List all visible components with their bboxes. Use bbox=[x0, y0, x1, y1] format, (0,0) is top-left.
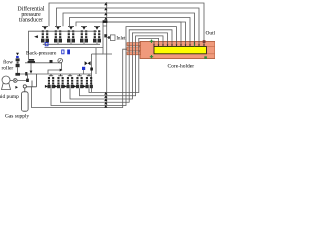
wire arch 1 bbox=[51, 27, 177, 106]
bowtie valve bbox=[85, 61, 91, 65]
transducer L3 bbox=[64, 74, 74, 88]
green fitting top bbox=[150, 40, 153, 44]
wire top tap line 2 bbox=[57, 8, 200, 41]
wire rail to zigzag bbox=[92, 53, 104, 55]
transducer L4 bbox=[73, 74, 83, 88]
core-holder body (salmon sleeve) bbox=[140, 42, 215, 59]
rail C bbox=[25, 62, 62, 64]
svg-text:Outlet: Outlet bbox=[206, 31, 216, 37]
lower DP transducer row bbox=[45, 74, 93, 88]
wire unit-top rail to regulator bbox=[29, 31, 98, 59]
green fitting bottom bbox=[150, 55, 153, 59]
valve blob bbox=[90, 68, 93, 71]
blue marker b3 (filled) bbox=[67, 50, 70, 55]
wire top tap line 1 bbox=[49, 3, 204, 41]
wire mid vertical x91 bbox=[91, 54, 93, 92]
transducer L5 bbox=[83, 74, 93, 88]
wire top tap line 5 bbox=[76, 22, 186, 41]
green fitting bottom right bbox=[204, 56, 207, 59]
wire arch 2 bbox=[61, 30, 173, 102]
wire leg overlays across prongs bbox=[129, 43, 139, 55]
rail A: upper transducer collector bbox=[43, 43, 100, 45]
blue marker b1 (open) bbox=[45, 43, 48, 46]
regulator vent line bbox=[30, 63, 32, 71]
wire valve to rail D bbox=[27, 74, 29, 79]
green fitting mid bbox=[194, 42, 196, 46]
svg-text:Gas supply: Gas supply bbox=[5, 114, 29, 120]
end prong top bbox=[127, 43, 141, 46]
transducer L1 bbox=[45, 74, 55, 88]
rail B bbox=[45, 47, 104, 49]
arrow into U1 bbox=[34, 35, 38, 38]
rail D: bottom feed bbox=[18, 73, 92, 75]
transducer U4 bbox=[80, 26, 88, 44]
transducer U1 bbox=[41, 26, 49, 44]
pressure tap stubs bbox=[154, 41, 204, 45]
wire top tap line 3 bbox=[63, 13, 195, 41]
wire inlet stub bbox=[107, 37, 110, 39]
wire arch 5 bbox=[89, 38, 159, 92]
wire b4 stub bbox=[83, 70, 85, 74]
blue marker b2 (open) bbox=[62, 50, 64, 54]
core sample (yellow) bbox=[154, 46, 207, 53]
fluid pump symbol bbox=[2, 76, 14, 90]
blue marker b4 bbox=[82, 67, 85, 70]
twin pipe crossbar bbox=[103, 25, 107, 27]
back-pressure regulator bbox=[28, 59, 35, 63]
marker near cylinder knob bbox=[15, 86, 18, 89]
wire mid vertical x96 bbox=[95, 48, 97, 74]
transducer U5 bbox=[93, 26, 101, 44]
pressure tap arrowheads bbox=[153, 45, 205, 47]
check valve (circle-x) bbox=[13, 79, 27, 83]
flow arrows on manifold crossings (top) bbox=[104, 3, 107, 20]
wire arch 4 bbox=[80, 36, 164, 96]
manifold junction block bbox=[103, 20, 108, 23]
small valve on rail C bbox=[50, 60, 53, 63]
transducer L2 bbox=[54, 74, 64, 88]
outlet fitting (dark red) bbox=[203, 40, 206, 43]
wire reference line A0 bbox=[105, 22, 182, 41]
pressure gauge bbox=[48, 58, 63, 74]
flow arrows on manifold crossings (bottom) bbox=[104, 92, 107, 108]
upper DP transducer row bbox=[41, 26, 101, 44]
svg-text:Fluid pump: Fluid pump bbox=[0, 94, 19, 100]
svg-text:Core-holder: Core-holder bbox=[168, 63, 195, 69]
wire arch 3 bbox=[70, 33, 168, 99]
junction block bbox=[25, 72, 27, 76]
junction tee bbox=[15, 73, 20, 76]
wire supply feed to core inlet bbox=[32, 49, 128, 107]
transducer U2 bbox=[54, 26, 62, 44]
transducer U3 bbox=[67, 26, 75, 44]
svg-text:transducer: transducer bbox=[19, 18, 43, 24]
wire twin pipe left bbox=[102, 23, 104, 54]
inlet valve tick bbox=[104, 34, 107, 37]
svg-text:flow: flow bbox=[3, 58, 13, 65]
svg-text:roller: roller bbox=[2, 66, 14, 72]
wire inlet zigzag bbox=[103, 53, 112, 55]
inlet fitting bbox=[108, 36, 110, 38]
wire manifold vertical bbox=[106, 2, 108, 106]
arrow on gauge line bbox=[60, 69, 63, 72]
band edge lines bbox=[207, 46, 216, 53]
end prong bottom bbox=[127, 52, 141, 55]
end prong middle bbox=[127, 47, 141, 51]
valve block on supply line bbox=[26, 79, 29, 82]
flow controller bbox=[16, 53, 20, 74]
wire top tap line 4 bbox=[70, 18, 191, 41]
svg-text:Back-pressure: Back-pressure bbox=[26, 51, 57, 57]
gas cylinder bbox=[22, 74, 37, 111]
svg-text:Inlet: Inlet bbox=[116, 37, 126, 42]
